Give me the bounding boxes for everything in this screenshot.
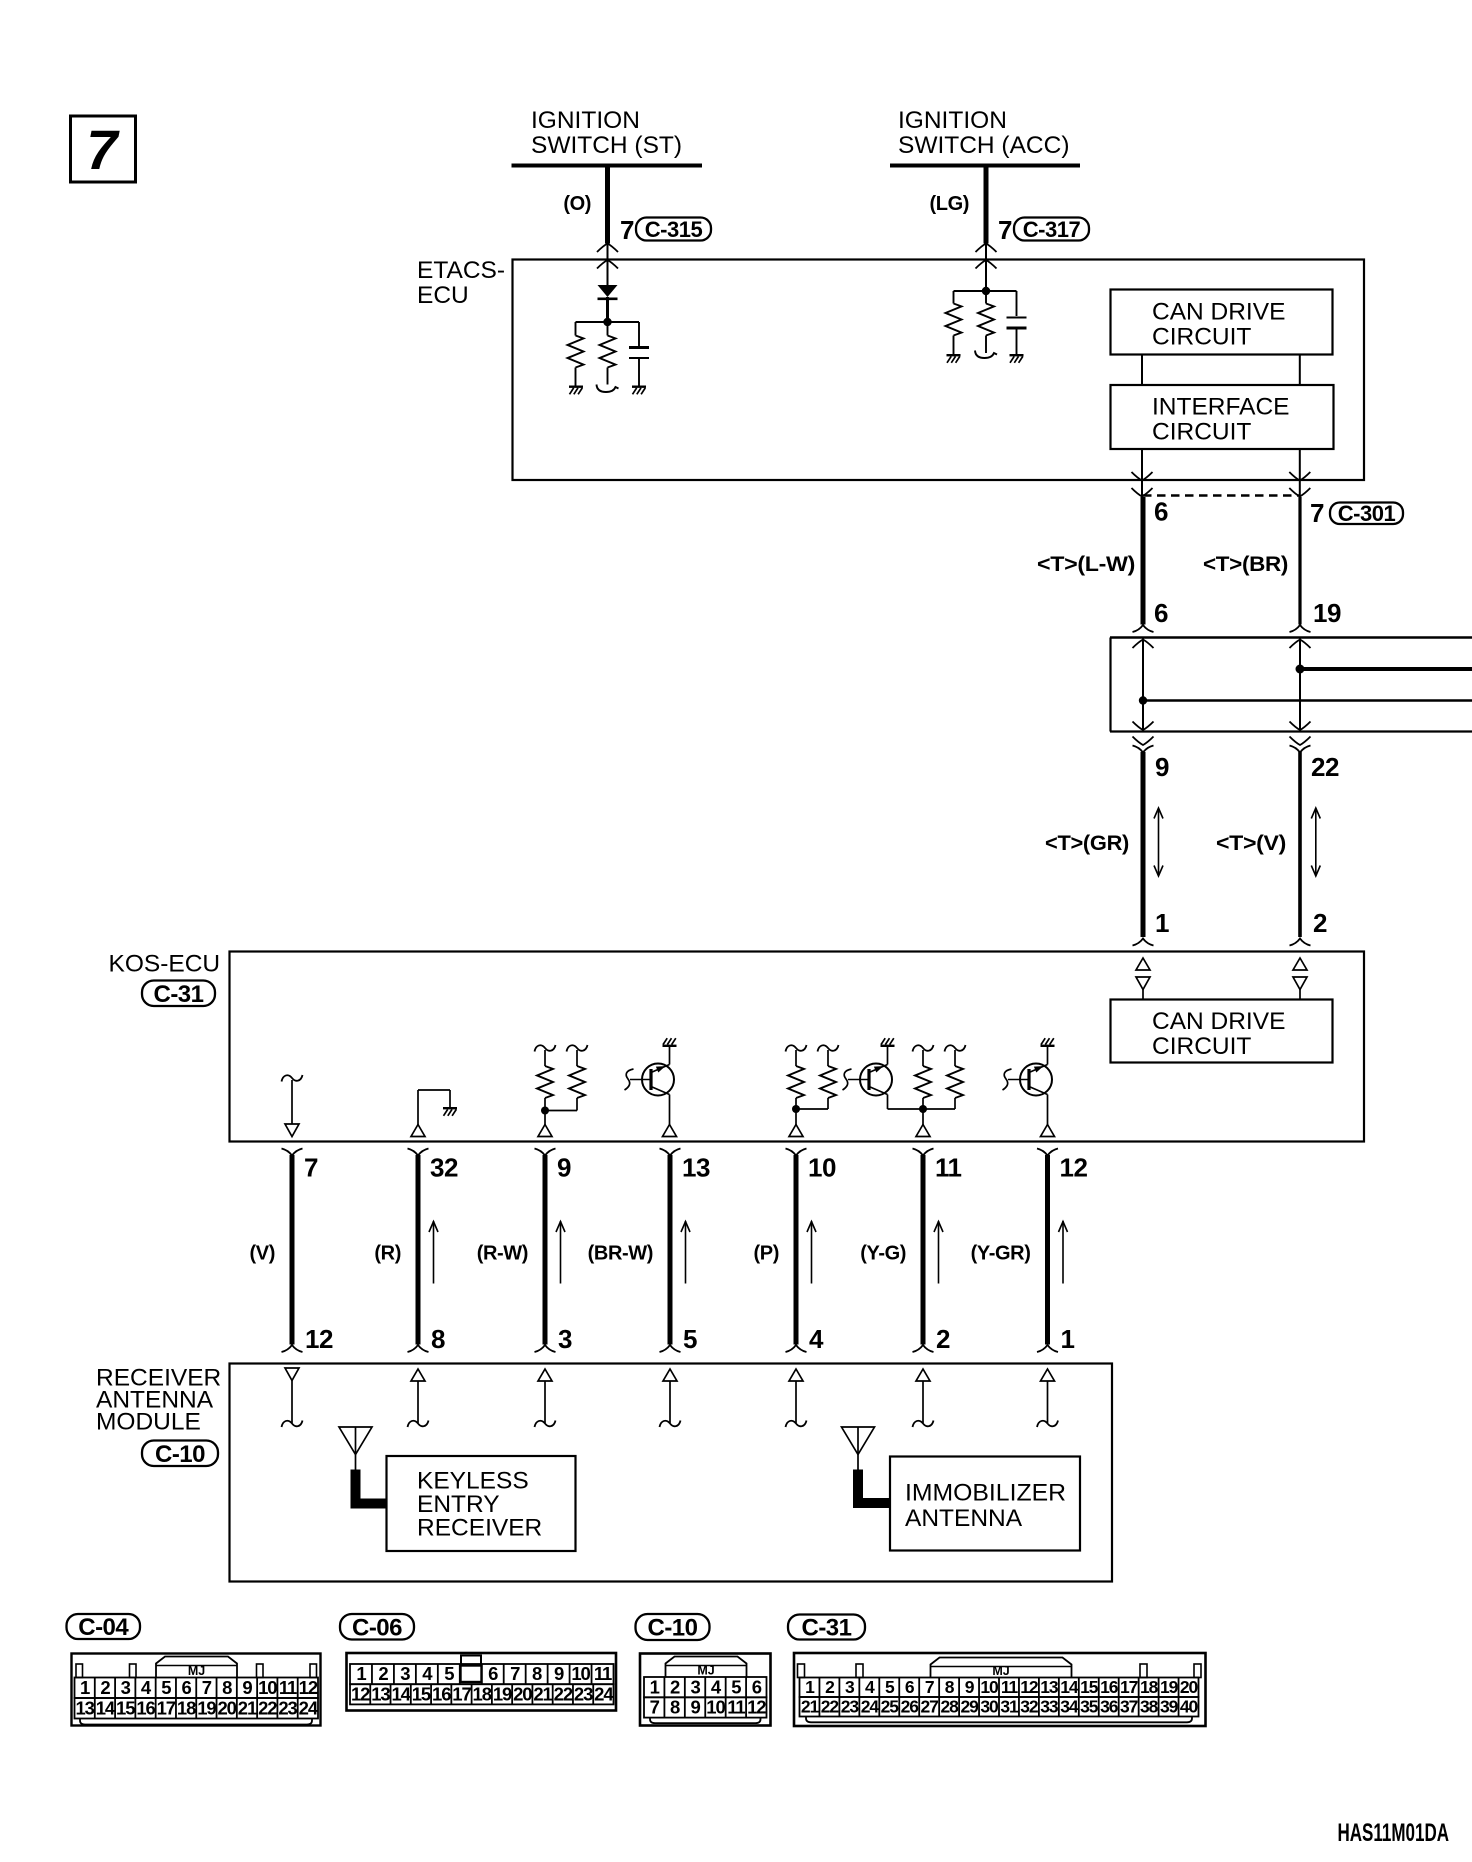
node ST junction: [603, 318, 611, 326]
svg-text:12: 12: [747, 1697, 766, 1718]
ground KOS pin 32: [443, 1107, 457, 1109]
connector pill C-317: [1014, 218, 1089, 241]
svg-text:RECEIVER: RECEIVER: [417, 1515, 542, 1542]
fork wire (R) bottom: [408, 1345, 429, 1352]
svg-text:ECU: ECU: [417, 282, 469, 309]
module pin 3 triangle: [538, 1369, 552, 1381]
svg-text:35: 35: [1080, 1697, 1099, 1717]
module pin 2 curl: [913, 1421, 934, 1428]
connector pill C-31: [788, 1615, 865, 1640]
svg-text:6: 6: [1154, 497, 1168, 527]
ground C2: [1010, 354, 1024, 356]
svg-text:16: 16: [432, 1683, 451, 1704]
ground Q2: [881, 1045, 895, 1047]
connector pill C-301: [1330, 503, 1403, 525]
resistor R9: [913, 1045, 934, 1052]
svg-text:18: 18: [1140, 1677, 1159, 1697]
connector pill C-315: [636, 218, 711, 241]
svg-text:ETACS-: ETACS-: [417, 257, 505, 284]
svg-text:CAN DRIVE: CAN DRIVE: [1152, 299, 1285, 326]
arrow up (P): [811, 1221, 813, 1284]
ground C1: [632, 386, 646, 388]
svg-text:8: 8: [222, 1677, 232, 1698]
svg-text:6: 6: [182, 1677, 192, 1698]
fork wire (P) top: [786, 1149, 807, 1156]
module pin 5 curl: [660, 1421, 681, 1428]
svg-text:7: 7: [998, 215, 1012, 245]
svg-text:24: 24: [594, 1683, 614, 1704]
wire ST (O) thick: [605, 167, 610, 244]
CAN DRIVE CIRCUIT box (KOS): [1111, 1000, 1333, 1063]
connector C-31 base strip: [806, 1717, 1192, 1723]
module pin 2 lead: [922, 1381, 924, 1423]
svg-text:5: 5: [444, 1663, 454, 1684]
transistor Q3: [1020, 1064, 1052, 1096]
svg-text:26: 26: [901, 1697, 920, 1717]
arrow up (R): [433, 1221, 435, 1284]
svg-text:9: 9: [242, 1677, 252, 1698]
connector C-04 shell: [72, 1654, 321, 1726]
wire INTERFACE down right: [1299, 449, 1301, 496]
connector pill C-10: [636, 1614, 710, 1640]
KOS pin 32 ground trace: [417, 1090, 419, 1125]
svg-text:8: 8: [670, 1697, 680, 1718]
svg-text:19: 19: [1160, 1677, 1179, 1697]
connector C-10 pin grid: [644, 1677, 767, 1697]
svg-text:C-317: C-317: [1023, 217, 1081, 242]
svg-text:21: 21: [238, 1697, 257, 1718]
svg-text:9: 9: [557, 1153, 571, 1183]
chevron below joint right: [1290, 737, 1311, 746]
svg-text:(LG): (LG): [930, 193, 970, 215]
keyless antenna symbol: [339, 1427, 372, 1455]
connector C-04 pin grid: [75, 1678, 319, 1699]
svg-text:19: 19: [493, 1683, 512, 1704]
svg-text:17: 17: [1120, 1677, 1138, 1697]
connector C-06 shell: [347, 1653, 617, 1711]
arrow up (BR-W): [685, 1221, 687, 1284]
keyless antenna thick lead: [356, 1470, 387, 1504]
svg-text:3: 3: [400, 1663, 410, 1684]
svg-text:6: 6: [752, 1676, 762, 1697]
svg-text:12: 12: [1020, 1677, 1039, 1697]
svg-text:13: 13: [75, 1697, 94, 1718]
dashed connector line C-301: [1143, 494, 1300, 496]
wire INTERFACE down left: [1141, 449, 1143, 496]
power feed bar (ST): [512, 164, 703, 168]
module pin 8 lead: [417, 1381, 419, 1423]
transistor Q1: [642, 1064, 674, 1096]
svg-text:10: 10: [571, 1663, 590, 1684]
svg-text:9: 9: [554, 1663, 564, 1684]
bus line upper thick: [1300, 667, 1472, 671]
svg-text:4: 4: [809, 1324, 824, 1354]
chevron below joint left: [1133, 737, 1154, 746]
resistor R10: [945, 1045, 966, 1052]
transistor Q2: [860, 1064, 892, 1096]
svg-text:3: 3: [121, 1677, 131, 1698]
node joint right: [1296, 665, 1305, 674]
wire ACC (LG) thick: [984, 167, 989, 244]
svg-text:15: 15: [116, 1697, 135, 1718]
module pin 4 curl: [786, 1421, 807, 1428]
immobilizer antenna symbol: [842, 1427, 875, 1455]
wire (V) thick: [290, 1155, 295, 1345]
connector C-31 pin grid: [800, 1678, 1199, 1698]
svg-text:5: 5: [161, 1677, 171, 1698]
wire CAN-to-INTERFACE right: [1299, 355, 1301, 386]
Q3 collector to ground: [1047, 1047, 1049, 1065]
wire R7-R8 join: [796, 1108, 828, 1110]
wire ACC junction horizontal: [954, 290, 1017, 292]
svg-text:10: 10: [706, 1697, 725, 1718]
svg-text:16: 16: [1100, 1677, 1119, 1697]
fork wire (V) bottom: [282, 1345, 303, 1352]
svg-text:11: 11: [727, 1697, 745, 1718]
wire (R-W) thick: [543, 1155, 548, 1345]
svg-text:37: 37: [1120, 1697, 1138, 1717]
svg-text:1: 1: [80, 1677, 90, 1698]
svg-text:6: 6: [905, 1677, 915, 1697]
svg-text:16: 16: [136, 1697, 155, 1718]
svg-text:KOS-ECU: KOS-ECU: [109, 951, 221, 978]
wire (BR-W) thick: [668, 1155, 673, 1345]
power feed bar (ACC): [890, 164, 1080, 168]
fork wire (Y-G) top: [913, 1149, 934, 1156]
svg-text:19: 19: [197, 1697, 216, 1718]
svg-text:23: 23: [574, 1683, 593, 1704]
connector C-31 shell: [794, 1653, 1206, 1726]
svg-text:<T>(GR): <T>(GR): [1045, 832, 1129, 855]
svg-text:7: 7: [510, 1663, 520, 1684]
KOS pin 2 triangles: [1293, 958, 1307, 970]
svg-text:IGNITION: IGNITION: [531, 107, 640, 134]
svg-text:12: 12: [351, 1683, 370, 1704]
svg-text:7: 7: [925, 1677, 934, 1697]
svg-text:22: 22: [258, 1697, 277, 1718]
svg-text:3: 3: [558, 1324, 572, 1354]
module pin 4 triangle: [789, 1369, 803, 1381]
svg-text:23: 23: [841, 1697, 860, 1717]
chevrons ETACS bottom left: [1132, 472, 1153, 481]
svg-text:HAS11M01DA: HAS11M01DA: [1338, 1819, 1450, 1847]
fork wire (R) top: [408, 1149, 429, 1156]
svg-text:7: 7: [86, 118, 120, 181]
svg-text:30: 30: [980, 1697, 999, 1717]
svg-text:38: 38: [1140, 1697, 1159, 1717]
svg-text:10: 10: [258, 1677, 277, 1698]
svg-text:13: 13: [1040, 1677, 1059, 1697]
svg-text:23: 23: [278, 1697, 297, 1718]
connector chevrons C-317: [976, 244, 997, 253]
double arrow V: [1315, 808, 1317, 876]
connector C-10 MJ hood: [666, 1657, 747, 1678]
node pin 10 junction: [792, 1105, 800, 1113]
capacitor C1: [638, 322, 640, 346]
KOS-ECU box: [230, 952, 1365, 1142]
node ACC junction: [982, 287, 990, 295]
module pin 1 lead: [1047, 1381, 1049, 1423]
svg-text:19: 19: [1313, 598, 1341, 628]
module pin 5 triangle: [663, 1369, 677, 1381]
module pin 5 lead: [669, 1381, 671, 1423]
svg-text:2: 2: [378, 1663, 388, 1684]
svg-text:(V): (V): [250, 1243, 275, 1265]
svg-text:1: 1: [1061, 1324, 1075, 1354]
module pin 4 lead: [795, 1381, 797, 1423]
wire (Y-G) thick: [921, 1155, 926, 1345]
svg-text:7: 7: [650, 1697, 660, 1718]
double arrow GR: [1158, 808, 1160, 876]
Q3 emitter lead: [1047, 1095, 1049, 1125]
svg-text:4: 4: [865, 1677, 875, 1697]
Q1 collector to ground: [669, 1047, 671, 1065]
svg-text:(O): (O): [563, 193, 591, 215]
connector pill C-06: [340, 1614, 414, 1640]
svg-text:11: 11: [279, 1677, 297, 1698]
wire <T>(BR): [1298, 497, 1301, 625]
svg-text:12: 12: [1060, 1153, 1088, 1183]
svg-text:9: 9: [1155, 752, 1169, 782]
connector C-04 base strip: [80, 1719, 312, 1725]
module pin 8 triangle: [411, 1369, 425, 1381]
page number box 7: [71, 116, 136, 182]
wire <T>(GR) thick: [1141, 752, 1146, 937]
arrow up (R-W): [560, 1221, 562, 1284]
svg-text:13: 13: [682, 1153, 710, 1183]
joint connector box left edge: [1109, 638, 1111, 732]
svg-text:8: 8: [532, 1663, 542, 1684]
svg-text:6: 6: [488, 1663, 498, 1684]
wire (P) thick: [794, 1155, 799, 1345]
wire <T>(L-W) thick: [1141, 497, 1146, 625]
ground Q1: [663, 1045, 677, 1047]
svg-text:IMMOBILIZER: IMMOBILIZER: [905, 1480, 1066, 1507]
svg-text:2: 2: [825, 1677, 835, 1697]
wire R5-R6 join: [545, 1110, 577, 1112]
joint connector box bottom edge: [1110, 730, 1472, 732]
resistor R6: [567, 1045, 588, 1052]
IMMOBILIZER ANTENNA box: [890, 1457, 1080, 1551]
wire into ETACS (ST): [607, 244, 609, 286]
fork BR bottom: [1290, 625, 1311, 632]
svg-text:SWITCH (ACC): SWITCH (ACC): [898, 132, 1069, 159]
connector pill C-31 (label): [142, 981, 215, 1007]
KEYLESS ENTRY RECEIVER box: [387, 1456, 576, 1551]
svg-text:5: 5: [731, 1676, 741, 1697]
svg-text:2: 2: [100, 1677, 110, 1698]
KOS pin 10 triangle: [795, 1109, 797, 1125]
svg-text:39: 39: [1160, 1697, 1179, 1717]
svg-text:7: 7: [1310, 498, 1324, 528]
connector C-06 pin grid: [350, 1664, 614, 1684]
connector C-06 key slot: [461, 1656, 481, 1666]
svg-text:C-04: C-04: [78, 1614, 129, 1641]
fork wire (P) bottom: [786, 1345, 807, 1352]
fork wire (R-W) top: [535, 1149, 556, 1156]
svg-text:28: 28: [940, 1697, 959, 1717]
svg-text:22: 22: [1311, 752, 1339, 782]
fork wire (BR-W) top: [660, 1149, 681, 1156]
curl R4 tail: [985, 350, 987, 353]
svg-text:33: 33: [1040, 1697, 1059, 1717]
svg-text:ANTENNA: ANTENNA: [905, 1505, 1023, 1532]
svg-text:12: 12: [305, 1324, 333, 1354]
svg-text:11: 11: [594, 1663, 612, 1684]
arrow up (Y-G): [938, 1221, 940, 1284]
svg-text:C-06: C-06: [352, 1614, 402, 1641]
svg-text:(P): (P): [754, 1243, 779, 1265]
Q1 emitter lead: [669, 1095, 671, 1125]
svg-text:2: 2: [1313, 908, 1327, 938]
module pin 12 curl: [282, 1421, 303, 1428]
wire ST junction horizontal: [576, 321, 640, 323]
connector pill C-10 (label): [142, 1441, 218, 1467]
svg-text:24: 24: [299, 1697, 319, 1718]
wire (R) thick: [416, 1155, 421, 1345]
svg-text:5: 5: [885, 1677, 895, 1697]
resistor R8: [818, 1045, 839, 1052]
connector C-31 MJ hood: [931, 1658, 1072, 1678]
svg-text:C-10: C-10: [155, 1441, 205, 1468]
svg-text:22: 22: [821, 1697, 840, 1717]
fork GR top: [1133, 746, 1154, 753]
svg-text:32: 32: [430, 1153, 458, 1183]
svg-text:1: 1: [1155, 908, 1169, 938]
node pin 11 junction: [919, 1105, 927, 1113]
svg-text:C-31: C-31: [801, 1615, 851, 1642]
svg-text:17: 17: [452, 1683, 471, 1704]
svg-text:14: 14: [96, 1697, 116, 1718]
INTERFACE CIRCUIT box: [1111, 385, 1334, 449]
svg-text:2: 2: [936, 1324, 950, 1354]
module pin 2 triangle: [916, 1369, 930, 1381]
svg-text:24: 24: [861, 1697, 880, 1717]
module pin 12 lead: [291, 1381, 293, 1424]
svg-text:CIRCUIT: CIRCUIT: [1152, 1033, 1251, 1060]
capacitor C2: [1016, 291, 1018, 316]
svg-text:29: 29: [960, 1697, 979, 1717]
svg-text:1: 1: [650, 1676, 660, 1697]
fork wire (Y-GR) bottom: [1037, 1345, 1058, 1352]
ground R1: [569, 386, 583, 388]
resistor R7: [786, 1045, 807, 1052]
module pin 8 curl: [408, 1421, 429, 1428]
module pin 1 curl: [1037, 1421, 1058, 1428]
resistor R5: [535, 1045, 556, 1052]
svg-text:22: 22: [554, 1683, 573, 1704]
ETACS-ECU box: [513, 260, 1365, 481]
svg-text:(BR-W): (BR-W): [588, 1243, 653, 1265]
svg-text:CIRCUIT: CIRCUIT: [1152, 324, 1251, 351]
svg-text:(R): (R): [374, 1243, 401, 1265]
svg-text:40: 40: [1180, 1697, 1199, 1717]
module pin 1 triangle: [1041, 1369, 1055, 1381]
svg-text:11: 11: [1001, 1677, 1019, 1697]
svg-text:34: 34: [1060, 1697, 1079, 1717]
KOS pin 32 triangle: [411, 1125, 425, 1137]
arrow up (Y-GR): [1062, 1221, 1064, 1284]
svg-text:13: 13: [371, 1683, 390, 1704]
svg-text:1: 1: [805, 1677, 815, 1697]
fork wire (R-W) bottom: [535, 1345, 556, 1352]
svg-text:INTERFACE: INTERFACE: [1152, 394, 1290, 421]
fork L-W bottom: [1133, 625, 1154, 632]
wire (Y-GR) thick: [1045, 1155, 1050, 1345]
connector C-31 tabs: [798, 1664, 805, 1678]
module pin 3 lead: [544, 1381, 546, 1423]
svg-text:17: 17: [157, 1697, 176, 1718]
fork V bottom: [1290, 939, 1311, 946]
ground Q3: [1041, 1045, 1055, 1047]
svg-text:IGNITION: IGNITION: [898, 107, 1007, 134]
svg-text:6: 6: [1154, 598, 1168, 628]
svg-text:18: 18: [473, 1683, 492, 1704]
svg-text:21: 21: [801, 1697, 820, 1717]
KOS pin 11 triangle: [922, 1109, 924, 1125]
svg-text:<T>(V): <T>(V): [1216, 832, 1286, 855]
CAN DRIVE CIRCUIT box (ETACS): [1111, 290, 1333, 355]
svg-text:CAN DRIVE: CAN DRIVE: [1152, 1008, 1285, 1035]
svg-text:(R-W): (R-W): [477, 1243, 528, 1265]
connector C-10 shell: [640, 1654, 771, 1726]
KOS pin 9 triangle: [544, 1111, 546, 1125]
svg-text:2: 2: [670, 1676, 680, 1697]
joint wire left through box: [1142, 638, 1144, 732]
fork wire (Y-GR) top: [1037, 1149, 1058, 1156]
svg-text:14: 14: [391, 1683, 411, 1704]
svg-text:9: 9: [690, 1697, 700, 1718]
KOS pin 12 triangle: [1041, 1125, 1055, 1137]
wire CAN-to-INTERFACE left: [1141, 355, 1143, 386]
svg-text:10: 10: [980, 1677, 999, 1697]
svg-text:10: 10: [808, 1153, 836, 1183]
wire Q2-R9-R10 join: [888, 1108, 956, 1110]
bus line lower: [1143, 699, 1472, 701]
svg-text:3: 3: [845, 1677, 855, 1697]
svg-text:18: 18: [177, 1697, 196, 1718]
svg-text:12: 12: [299, 1677, 318, 1698]
KOS pin 13 triangle: [663, 1125, 677, 1137]
curl R2 tail: [607, 381, 609, 385]
diode D1: [598, 285, 618, 297]
svg-text:SWITCH (ST): SWITCH (ST): [531, 132, 682, 159]
resistor R4: [985, 291, 987, 304]
svg-text:11: 11: [935, 1153, 962, 1183]
svg-text:32: 32: [1020, 1697, 1039, 1717]
module pin 12 triangle: [285, 1368, 299, 1381]
node joint left: [1139, 696, 1147, 704]
svg-text:27: 27: [921, 1697, 939, 1717]
connector C-04 MJ hood: [156, 1657, 237, 1678]
svg-text:C-301: C-301: [1338, 501, 1396, 526]
fork wire (BR-W) bottom: [660, 1345, 681, 1352]
svg-text:7: 7: [202, 1677, 212, 1698]
svg-text:C-315: C-315: [645, 217, 703, 242]
svg-text:CIRCUIT: CIRCUIT: [1152, 419, 1251, 446]
svg-text:C-10: C-10: [647, 1615, 697, 1642]
svg-text:<T>(BR): <T>(BR): [1203, 553, 1288, 576]
joint connector box top edge: [1110, 636, 1472, 639]
KOS pin 7 triangle: [285, 1124, 299, 1137]
svg-text:5: 5: [683, 1324, 697, 1354]
Q2 emitter lead: [887, 1095, 889, 1110]
svg-text:C-31: C-31: [153, 981, 203, 1008]
connector pill C-04: [67, 1614, 141, 1639]
svg-text:1: 1: [356, 1663, 366, 1684]
resistor R2: [607, 322, 609, 336]
connector C-04 tabs: [76, 1664, 83, 1678]
